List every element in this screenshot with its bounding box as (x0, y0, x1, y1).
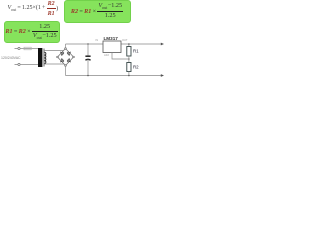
capacitor C1 (85, 44, 90, 76)
formula Vout = 1.25x(1+R2/R1) (8, 1, 59, 18)
junction cap top (87, 43, 89, 45)
node bridge right corner (73, 56, 75, 58)
diode D3 (SW) (61, 59, 64, 63)
bottom rail wire (66, 75, 162, 77)
diode D1 (NW) (61, 52, 64, 56)
node bridge left corner (57, 56, 59, 58)
wire top AC to transformer (20, 48, 38, 50)
transformer T1 primary winding (38, 48, 42, 67)
regulator U1 LM317 (103, 41, 121, 53)
fuse F1 (24, 47, 31, 50)
junction R2 bottom (128, 75, 130, 77)
wire LM317 out to output (121, 43, 161, 45)
AC terminal bottom (15, 63, 21, 65)
output terminal arrow bottom (161, 74, 164, 77)
wire ADJ pin (112, 53, 129, 60)
transformer core (43, 49, 45, 67)
node bridge bottom corner (65, 65, 67, 67)
wire secondary top to bridge (44, 51, 63, 53)
wire R1 top (128, 44, 130, 47)
junction ADJ/R1/R2 (128, 58, 130, 60)
svg-text:R2: R2 (133, 64, 139, 69)
junction cap bottom (87, 75, 89, 77)
svg-text:OUT: OUT (122, 38, 128, 42)
junction R1 top (128, 43, 130, 45)
node bridge bottom (65, 66, 67, 76)
svg-text:IN: IN (96, 38, 99, 42)
green box formula R2 = R1 x (Vout-1.25)/1.25 (64, 0, 131, 23)
bridge rectifier BR1 diamond (58, 49, 74, 66)
wire R1 bottom (128, 56, 130, 63)
diode D2 (NE) (67, 52, 70, 56)
output terminal arrow top (161, 43, 164, 46)
resistor R2 (127, 63, 131, 72)
svg-text:ADJ: ADJ (104, 53, 110, 57)
node bridge top corner (65, 48, 67, 50)
svg-text:R1: R1 (133, 49, 139, 54)
node bridge top (65, 44, 67, 49)
svg-text:LM317: LM317 (104, 36, 119, 41)
wire R2 bottom (128, 72, 130, 76)
diode D4 (SE) (67, 59, 70, 63)
wire bottom AC to transformer (20, 64, 38, 66)
AC terminal top (15, 47, 21, 49)
wire secondary bottom to bridge (44, 63, 64, 66)
svg-text:120/240VAC: 120/240VAC (1, 56, 21, 60)
wire top rail to LM317 (66, 43, 104, 45)
resistor R1 (127, 47, 131, 57)
transformer secondary winding (44, 52, 46, 63)
green box formula R1 = R2 x 1.25/(Vout-1.25) (4, 21, 60, 43)
